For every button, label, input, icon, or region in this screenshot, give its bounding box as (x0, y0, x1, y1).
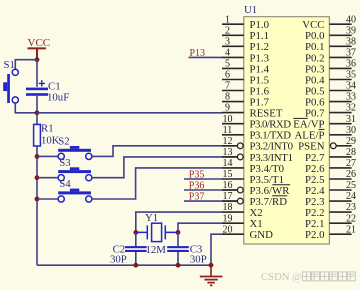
pin 2 P1.1 (222, 25, 269, 42)
ground (200, 265, 223, 285)
svg-text:27: 27 (346, 158, 356, 169)
svg-text:32: 32 (346, 103, 356, 114)
wire R1 bottom down left column (36, 146, 38, 265)
wire S3 to chip pin 13 INT1 (92, 157, 237, 178)
switch S4 (58, 178, 92, 202)
pin 31 EA/VP (293, 114, 356, 131)
overline P of ALE/P on pin 30 (319, 128, 325, 130)
capacitor C3 30P (167, 232, 207, 265)
pin 17 P3.7/RD (222, 191, 287, 208)
junction dot crystal left node (133, 230, 138, 235)
watermark CSDN (261, 271, 355, 283)
pin 14 P3.4/T0 (222, 158, 284, 175)
junction dot S3 tap (35, 175, 40, 180)
svg-text:P2.0: P2.0 (305, 229, 325, 241)
svg-text:33: 33 (346, 92, 356, 103)
svg-text:20: 20 (223, 224, 233, 235)
svg-text:35: 35 (346, 70, 356, 81)
svg-text:39: 39 (346, 25, 356, 36)
pin 37 P0.2 (305, 48, 356, 65)
wire crystal left node to chip pin 18 X2 (136, 212, 223, 232)
wire reset node to chip pin 9 RESET (37, 112, 223, 114)
crystal Y1 12M (136, 212, 178, 256)
switch S2 (58, 136, 92, 160)
pin 33 P0.6 (305, 92, 356, 109)
pin 21 P2.0 (305, 224, 356, 241)
junction dot S2 tap (35, 154, 40, 159)
capacitor C2 30P (110, 232, 147, 265)
pin 16 P3.6/WR (222, 180, 290, 197)
svg-text:31: 31 (346, 114, 356, 125)
svg-text:8: 8 (225, 92, 230, 103)
svg-text:5: 5 (225, 59, 230, 70)
svg-text:16: 16 (223, 180, 233, 191)
wire VCC node to S1 top (15, 60, 37, 70)
capacitor C1 10uF polarized (26, 80, 69, 103)
svg-text:12M: 12M (146, 244, 167, 256)
svg-text:VCC: VCC (28, 37, 51, 49)
svg-text:29: 29 (346, 136, 356, 147)
svg-text:40: 40 (346, 14, 356, 25)
svg-text:P13: P13 (190, 48, 206, 59)
svg-text:23: 23 (346, 202, 356, 213)
svg-text:22: 22 (346, 213, 356, 224)
svg-text:15: 15 (223, 169, 233, 180)
svg-text:30P: 30P (110, 254, 127, 266)
wire net P35 to chip pin 15 (184, 178, 223, 180)
pin 22 P2.1 (305, 213, 356, 230)
svg-text:2: 2 (225, 25, 230, 36)
pin 9 RESET (222, 103, 283, 120)
svg-text:10uF: 10uF (47, 92, 69, 104)
pin 26 P2.5 (305, 169, 356, 186)
pin 23 P2.2 (305, 202, 356, 219)
pin 39 P0.0 (305, 25, 356, 42)
junction dot C3 bottom (176, 263, 181, 268)
wire column to S4 (37, 198, 58, 200)
svg-text:6: 6 (225, 70, 230, 81)
pin 29 PSEN (298, 136, 356, 153)
pin 24 P2.3 (305, 191, 356, 208)
svg-text:30: 30 (346, 125, 356, 136)
junction dot C2 bottom (133, 263, 138, 268)
pin 4 P1.3 (222, 48, 269, 65)
svg-text:21: 21 (346, 224, 356, 235)
pin 1 P1.0 (222, 14, 269, 31)
pin 5 P1.4 (222, 59, 270, 76)
power symbol VCC (28, 37, 51, 60)
pin 10 P3.0/RXD (222, 114, 291, 131)
pin 35 P0.4 (305, 70, 356, 87)
IC U1 8051 body (244, 4, 330, 244)
svg-text:4: 4 (225, 48, 230, 59)
svg-text:17: 17 (223, 191, 233, 202)
svg-text:7: 7 (225, 81, 230, 92)
pin 32 P0.7 (305, 103, 356, 120)
pin 36 P0.3 (305, 59, 356, 76)
svg-text:38: 38 (346, 36, 356, 47)
wire crystal right node to chip pin 19 X1 (178, 223, 223, 232)
overline RD on pin 17 (272, 195, 287, 197)
svg-text:9: 9 (225, 103, 230, 114)
pin 40 VCC (302, 14, 356, 31)
wire net P13 to chip pin 4 (189, 56, 223, 58)
pin 7 P1.6 (222, 81, 270, 98)
svg-text:25: 25 (346, 180, 356, 191)
switch S1 (3, 59, 18, 103)
svg-text:10K: 10K (41, 135, 60, 147)
svg-text:10: 10 (223, 114, 233, 125)
wire chip pin 20 GND down to ground (211, 234, 223, 265)
svg-text:CSDN @: CSDN @ (261, 271, 302, 283)
junction dot crystal right node (176, 230, 181, 235)
svg-text:R1: R1 (41, 123, 54, 135)
wire column to S3 (37, 177, 58, 179)
pin 34 P0.5 (305, 81, 356, 98)
pin 19 X1 (222, 213, 263, 230)
svg-text:11: 11 (223, 125, 233, 136)
svg-text:37: 37 (346, 48, 356, 59)
svg-text:S2: S2 (58, 136, 69, 148)
pin 6 P1.5 (222, 70, 269, 87)
pin 11 P3.1/TXD (222, 125, 291, 142)
wire net P36 to chip pin 16 (184, 189, 237, 191)
junction dot VCC node (35, 57, 40, 62)
junction dot ground node (209, 263, 214, 268)
junction dot reset node (35, 110, 40, 115)
svg-text:P35: P35 (189, 169, 205, 180)
overline WR on pin 16 (272, 184, 290, 186)
switch S3 (58, 157, 92, 181)
svg-text:S3: S3 (59, 157, 70, 169)
wire VCC node down to C1 (36, 60, 38, 87)
pin 13 P3.3/INT1 (222, 147, 293, 164)
svg-text:36: 36 (346, 59, 356, 70)
pin 25 P2.4 (305, 180, 356, 197)
pin 27 P2.6 (305, 158, 356, 175)
svg-text:Y1: Y1 (145, 212, 158, 224)
svg-text:1: 1 (225, 14, 230, 25)
pin 30 ALE/P (295, 125, 357, 142)
pin 28 P2.7 (305, 147, 356, 164)
svg-text:P37: P37 (189, 192, 205, 203)
wire net P37 to chip pin 17 (184, 200, 237, 202)
pin 8 P1.7 (222, 92, 270, 109)
svg-text:14: 14 (223, 158, 233, 169)
wire S2 to chip pin 12 INT0 (92, 146, 237, 157)
svg-text:30P: 30P (190, 254, 207, 266)
svg-text:S4: S4 (59, 178, 71, 190)
pin 18 X2 (222, 202, 263, 219)
overline EA on pin 31 (293, 117, 307, 119)
resistor R1 10K (34, 113, 60, 147)
svg-text:26: 26 (346, 169, 356, 180)
pin 15 P3.5/T1 (222, 169, 284, 186)
svg-text:24: 24 (346, 191, 356, 202)
svg-text:13: 13 (223, 147, 233, 158)
svg-text:U1: U1 (244, 4, 257, 16)
svg-text:19: 19 (223, 213, 233, 224)
svg-text:18: 18 (223, 202, 233, 213)
wire S4 to chip pin 14 T0 (92, 168, 223, 199)
svg-text:28: 28 (346, 147, 356, 158)
wire C1 bottom to reset node (36, 96, 38, 113)
pin 38 P0.1 (305, 36, 356, 53)
svg-text:12: 12 (223, 136, 233, 147)
svg-text:34: 34 (346, 81, 356, 92)
pin 20 GND (222, 224, 273, 241)
svg-text:P36: P36 (189, 180, 205, 191)
pin 12 P3.2/INT0 (222, 136, 293, 153)
junction dot S4 tap (35, 197, 40, 202)
pin 3 P1.2 (222, 36, 269, 53)
wire S1 bottom to reset node (15, 103, 37, 113)
wire bottom ground rail (37, 264, 211, 266)
svg-text:GND: GND (250, 229, 274, 241)
svg-text:3: 3 (225, 36, 230, 47)
wire column to S2 (37, 155, 58, 157)
